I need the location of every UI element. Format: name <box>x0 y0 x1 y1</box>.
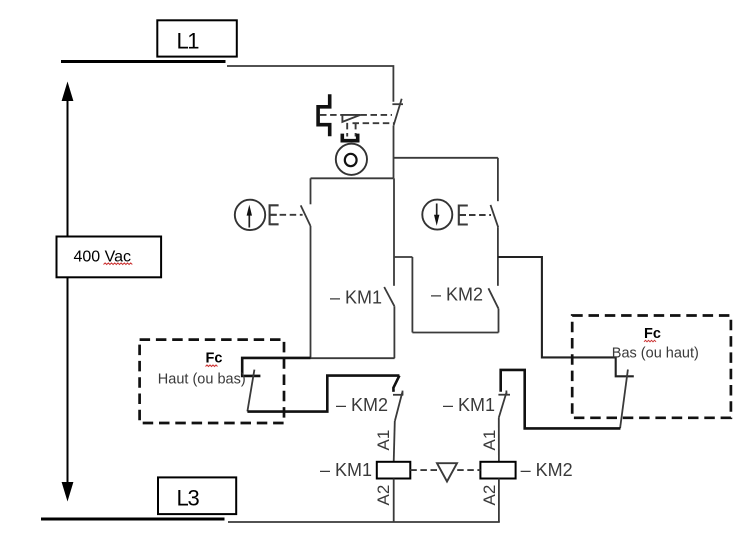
svg-text:A2: A2 <box>374 485 393 506</box>
svg-text:L1: L1 <box>177 29 200 54</box>
svg-text:– KM1: – KM1 <box>320 460 372 480</box>
svg-text:Haut (ou bas): Haut (ou bas) <box>158 371 246 387</box>
svg-text:L3: L3 <box>177 486 200 511</box>
svg-text:– KM1: – KM1 <box>443 395 495 415</box>
svg-text:Fc: Fc <box>206 351 223 367</box>
svg-text:– KM2: – KM2 <box>431 284 483 304</box>
svg-text:Bas (ou haut): Bas (ou haut) <box>612 345 699 361</box>
svg-text:A2: A2 <box>480 485 499 506</box>
svg-text:A1: A1 <box>480 430 499 451</box>
svg-text:– KM1: – KM1 <box>330 287 382 307</box>
svg-text:A1: A1 <box>374 430 393 451</box>
svg-text:– KM2: – KM2 <box>336 395 388 415</box>
svg-text:400 Vac: 400 Vac <box>74 248 132 265</box>
svg-text:– KM2: – KM2 <box>521 460 573 480</box>
svg-text:Fc: Fc <box>644 326 661 342</box>
